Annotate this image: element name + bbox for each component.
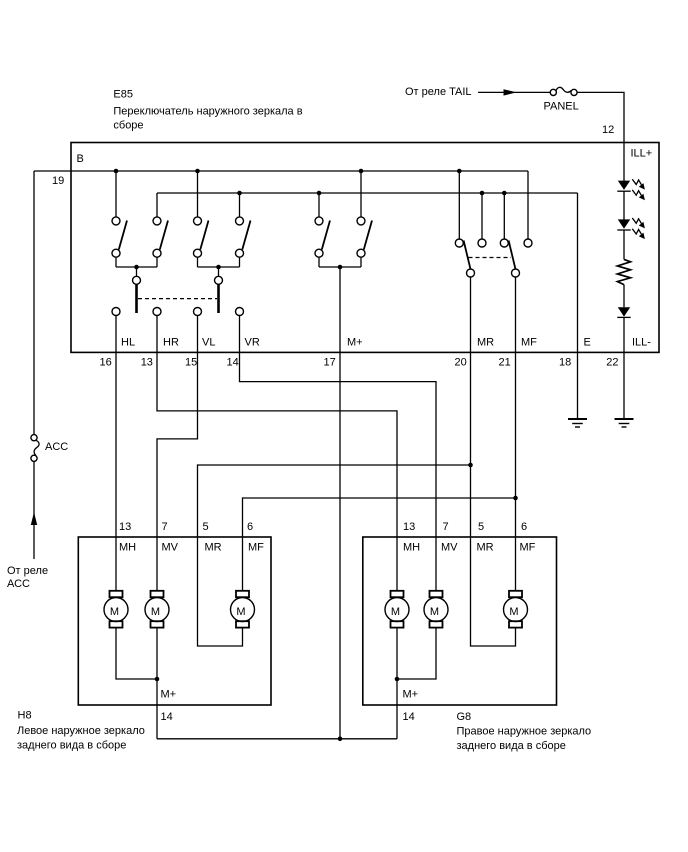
node B bus to sw3 [359, 169, 364, 174]
switch MR/MF contact 4 [524, 239, 532, 247]
switch MR/MF contact 2 [478, 239, 486, 247]
LED D1 emission arrows [632, 179, 645, 200]
node B bus to sw1 [114, 169, 119, 174]
svg-text:21: 21 [499, 356, 511, 368]
wire B bus drop to MR left contact [458, 171, 460, 239]
motor M6 (right MR/MF) [504, 591, 528, 628]
svg-text:15: 15 [185, 356, 197, 368]
wire B bus drop to sw3 right [360, 171, 362, 217]
svg-text:ACC: ACC [45, 441, 68, 453]
switch MR/MF contact 1 [455, 239, 463, 247]
svg-text:M: M [110, 606, 119, 618]
ground at pin 18 [568, 419, 587, 427]
wire B bus drop to MF right contact [527, 171, 529, 239]
svg-text:E: E [584, 337, 591, 349]
svg-text:19: 19 [52, 175, 64, 187]
svg-text:B: B [77, 153, 84, 165]
S2 pole lever [217, 285, 220, 314]
svg-text:16: 16 [100, 356, 112, 368]
wire fuse PANEL to pin 12 [577, 92, 624, 142]
motor M3 (left MR/MF) [231, 591, 255, 628]
motor M4 (right MH) [385, 591, 409, 628]
wire B bus drop to sw1 left [115, 171, 117, 217]
wire right M5 bottom to M+ node [397, 628, 436, 679]
LED D2 emission arrows [632, 218, 645, 239]
svg-text:сборе: сборе [113, 120, 143, 132]
svg-text:14: 14 [227, 356, 239, 368]
mechanical link S1-S2 [138, 298, 217, 300]
MR pole contact [467, 269, 475, 277]
S2 pole contact [215, 267, 223, 313]
wire LED2 to resistor [623, 230, 625, 259]
LED D2 [617, 219, 630, 230]
MR blade [464, 241, 471, 270]
svg-text:MF: MF [520, 542, 536, 554]
contact HR [153, 308, 161, 316]
svg-text:12: 12 [602, 124, 614, 136]
svg-text:13: 13 [403, 521, 415, 533]
svg-text:M: M [151, 606, 160, 618]
switch S2 (vertical) left half [194, 217, 219, 267]
diode D3 [617, 307, 630, 317]
wire HR (pin 13) to right mirror MH [157, 316, 397, 591]
wire resistor to diode D3 [623, 285, 625, 308]
bottom M+ bus wire [157, 738, 397, 740]
mechanical link MR-MF [469, 257, 512, 259]
fuse PANEL [550, 87, 577, 95]
svg-text:13: 13 [141, 356, 153, 368]
wire MF (pin 21) to right mirror MF [515, 277, 517, 591]
wire VL (pin 15) to left mirror MV [157, 316, 198, 591]
svg-text:M+: M+ [347, 337, 363, 349]
svg-text:заднего вида в сборе: заднего вида в сборе [17, 740, 126, 752]
LED D1 [617, 181, 630, 192]
node B bus to sw2 [195, 169, 200, 174]
node E bus to MR contact [480, 191, 485, 196]
fuse ACC [31, 435, 39, 462]
right mirror box G8 outline [363, 537, 557, 705]
svg-text:От реле TAIL: От реле TAIL [405, 86, 472, 98]
node E bus to sw3 [317, 191, 322, 196]
svg-text:MV: MV [162, 542, 179, 554]
svg-text:14: 14 [403, 711, 415, 723]
left mirror box H8 outline [78, 537, 271, 705]
svg-text:7: 7 [443, 521, 449, 533]
wire E bus drop to sw3 left [318, 193, 320, 217]
resistor R1 [617, 259, 630, 284]
svg-text:M: M [236, 606, 245, 618]
node E bus to MF contact [502, 191, 507, 196]
wire E bus drop to sw1 right [156, 193, 158, 217]
svg-text:MF: MF [248, 542, 264, 554]
contact VR [236, 308, 244, 316]
wire right M4 bottom to M+ node [396, 628, 398, 679]
svg-text:MH: MH [403, 542, 420, 554]
wire left M2 bottom to M+ node [156, 628, 158, 679]
wire VR (pin 14) to right mirror MV [240, 316, 437, 591]
switch S3 right half [340, 217, 372, 267]
svg-text:VR: VR [245, 337, 260, 349]
switch S3 (M+) left half [315, 217, 340, 267]
svg-text:M: M [509, 606, 518, 618]
node MR branch [468, 463, 473, 468]
wire E bus [157, 192, 578, 194]
wire E bus to pin 18 (E) [577, 193, 579, 418]
wire pin 12 to LED1 [623, 143, 625, 182]
switch S2 right half [219, 217, 251, 267]
node right M+ [395, 677, 400, 682]
svg-text:Переключатель наружного зеркал: Переключатель наружного зеркала в [113, 106, 302, 118]
svg-text:MR: MR [477, 542, 494, 554]
svg-text:MH: MH [119, 542, 136, 554]
contact VL [194, 308, 202, 316]
svg-text:MR: MR [205, 542, 222, 554]
node MF branch [513, 496, 518, 501]
svg-text:18: 18 [559, 356, 571, 368]
svg-text:MR: MR [477, 337, 494, 349]
node B bus to MR contact [457, 169, 462, 174]
MF pole contact [512, 269, 520, 277]
svg-text:M: M [391, 606, 400, 618]
svg-text:Правое наружное зеркало: Правое наружное зеркало [457, 726, 592, 738]
svg-text:M+: M+ [403, 689, 419, 701]
wire left mirror MF branch [243, 498, 516, 591]
svg-text:HR: HR [163, 337, 179, 349]
switch S1 (horizontal) left half [112, 217, 137, 267]
motor M5 (right MV) [424, 591, 448, 628]
S1 pole lever [135, 285, 138, 314]
wire B bus drop to sw2 left [197, 171, 199, 217]
wire left mirror MR branch [198, 465, 471, 646]
svg-text:5: 5 [203, 521, 209, 533]
svg-text:MV: MV [441, 542, 458, 554]
ground at pin 22 [615, 419, 634, 427]
svg-text:M+: M+ [161, 689, 177, 701]
svg-text:M: M [430, 606, 439, 618]
svg-text:H8: H8 [18, 710, 32, 722]
svg-text:22: 22 [606, 356, 618, 368]
svg-text:ILL-: ILL- [632, 337, 651, 349]
wire E bus drop to MF left contact [503, 193, 505, 239]
svg-text:17: 17 [324, 356, 336, 368]
wire M+ (pin 17) [339, 267, 341, 739]
svg-text:заднего вида в сборе: заднего вида в сборе [457, 740, 566, 752]
svg-text:Левое наружное зеркало: Левое наружное зеркало [17, 725, 145, 737]
arrowhead on ACC feed [31, 512, 37, 525]
switch MR/MF contact 3 [500, 239, 508, 247]
MF blade [509, 241, 516, 270]
wire E bus drop to MR right contact [481, 193, 483, 239]
wire B bus (pin 19 feed) [34, 170, 528, 172]
wire right M+ (pin 14) up [396, 679, 398, 739]
node left M+ [155, 677, 160, 682]
switch box E85 outline [71, 143, 659, 353]
node E bus to sw2 [237, 191, 242, 196]
wire fuse ACC down to ACC relay [33, 461, 35, 559]
svg-text:6: 6 [247, 521, 253, 533]
S1 pole contact [133, 267, 141, 313]
svg-text:13: 13 [119, 521, 131, 533]
motor M1 (left MH) [104, 591, 128, 628]
svg-text:MF: MF [521, 337, 537, 349]
svg-text:G8: G8 [457, 711, 472, 723]
svg-text:ILL+: ILL+ [631, 148, 653, 160]
wire diode D3 to pin 22 / ground [623, 317, 625, 418]
node S3 common (M+ output) [338, 265, 343, 270]
svg-text:5: 5 [478, 521, 484, 533]
node S1 common [134, 265, 139, 270]
wire left M1 bottom to M+ node [116, 628, 157, 679]
svg-text:20: 20 [455, 356, 467, 368]
arrowhead on TAIL feed [504, 89, 517, 95]
wire E bus drop to sw2 right [239, 193, 241, 217]
node S2 common [216, 265, 221, 270]
wire from TAIL relay to fuse PANEL [478, 91, 550, 93]
contact HL [112, 308, 120, 316]
node M+ junction [338, 737, 343, 742]
wire pin 19 feed down to fuse ACC [33, 171, 35, 435]
wire MR (pin 20) to right mirror MR [471, 277, 516, 646]
svg-text:PANEL: PANEL [544, 101, 579, 113]
svg-text:HL: HL [121, 337, 135, 349]
svg-text:От реле: От реле [7, 565, 48, 577]
wire left M+ (pin 14) down [156, 679, 158, 739]
motor M2 (left MV) [145, 591, 169, 628]
svg-text:E85: E85 [113, 89, 133, 101]
svg-text:7: 7 [162, 521, 168, 533]
svg-text:14: 14 [161, 711, 173, 723]
svg-text:АСС: АСС [7, 578, 30, 590]
svg-text:6: 6 [521, 521, 527, 533]
wire HL (pin 16) to left mirror MH [115, 316, 117, 591]
wire LED1 to LED2 [623, 191, 625, 220]
svg-text:VL: VL [202, 337, 215, 349]
switch S1 right half [137, 217, 169, 267]
